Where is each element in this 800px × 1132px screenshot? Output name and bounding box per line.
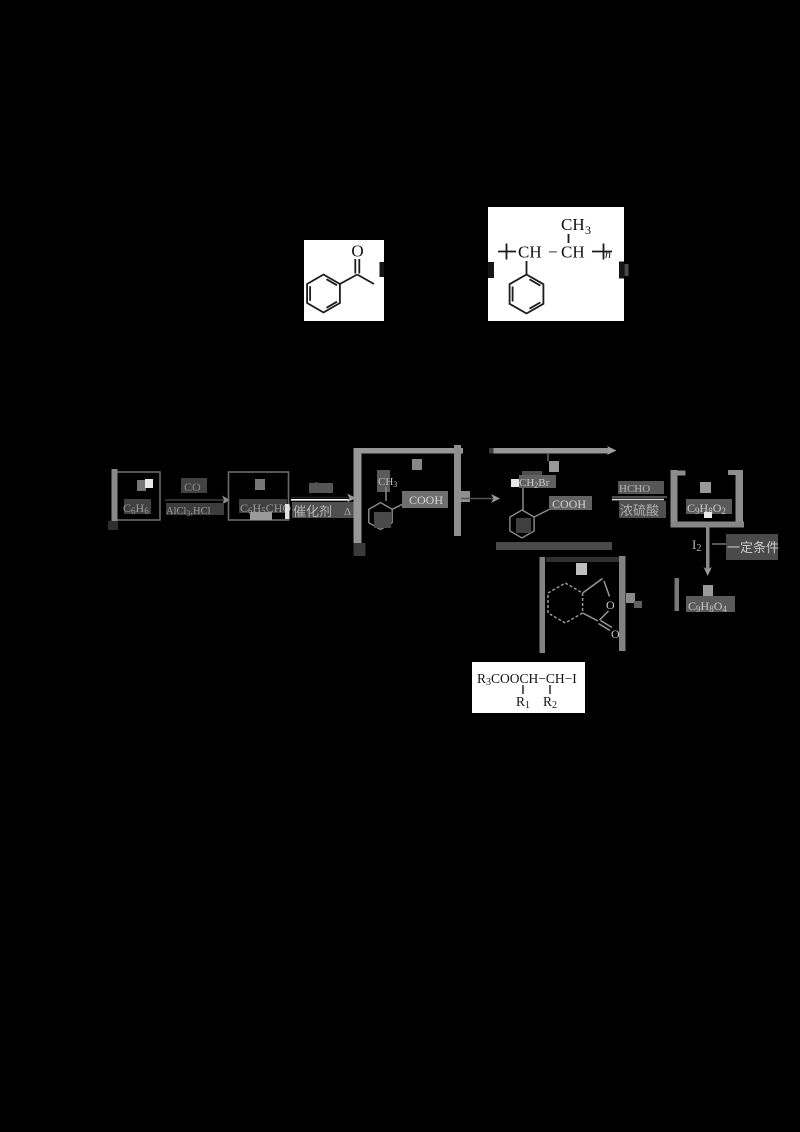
bracket ding (D): top bar bbox=[494, 448, 611, 454]
bracket bing: left bar bbox=[354, 448, 362, 543]
svg-text:COOH: COOH bbox=[552, 497, 586, 511]
svg-text:O: O bbox=[611, 627, 620, 641]
arrow 3 bright start blob bbox=[461, 491, 470, 502]
left backbone bracket bbox=[498, 244, 516, 260]
light block below yi formula bbox=[250, 512, 272, 520]
bing label blob bbox=[412, 459, 422, 470]
svg-text:CH: CH bbox=[518, 243, 542, 262]
svg-text:O: O bbox=[606, 598, 615, 612]
bond CH-R1 bbox=[522, 685, 524, 694]
ding bottom bar bbox=[496, 542, 612, 550]
svg-text:一定条件: 一定条件 bbox=[727, 540, 779, 555]
lactone box: right bar bbox=[619, 556, 626, 651]
bracket bing (C): top bar bbox=[354, 448, 464, 454]
white panel: R3COO box bbox=[472, 662, 585, 713]
wu label blob bbox=[700, 482, 711, 493]
svg-text:CO: CO bbox=[184, 480, 201, 494]
bright left edge of box jia bbox=[112, 469, 118, 522]
AlCl3 label backing bbox=[166, 503, 224, 515]
svg-text:3: 3 bbox=[585, 223, 591, 237]
condition tie line bbox=[712, 543, 727, 545]
bracket bing right bar bbox=[454, 445, 461, 536]
subscript glyph right of lactone box bbox=[626, 593, 635, 603]
product F bracket bar bbox=[675, 578, 680, 611]
clipped black glyph at right edge of box 1 bbox=[380, 262, 385, 277]
arrow 2 white underline bbox=[291, 499, 349, 501]
ding CH2Br backing bbox=[519, 475, 556, 488]
arrow 3 shaft bbox=[461, 498, 494, 500]
arrow 2 catalyst label blocks bbox=[292, 502, 356, 518]
lactone box: faint top smudge bbox=[546, 557, 619, 562]
R3COOCH-CH-I formula bbox=[477, 671, 577, 688]
ding ring inner gray fill bbox=[516, 518, 531, 533]
dark nub in top-bar gap bbox=[489, 448, 498, 454]
bing CH3 text bbox=[377, 470, 397, 492]
phenyl ring of polymer bbox=[510, 275, 544, 314]
product formula backing bbox=[686, 596, 735, 612]
lactone 5-ring bond ring-CH2 bbox=[583, 579, 603, 594]
arrow 4 lower label backing bbox=[619, 501, 666, 518]
bond backbone to phenyl bbox=[526, 261, 528, 275]
svg-text:O: O bbox=[351, 242, 363, 261]
C6H6 backing bbox=[124, 499, 151, 514]
ding top-bar end nub bbox=[607, 446, 617, 455]
acetyl group C(=O)CH3 bbox=[340, 259, 374, 284]
lactone C=O double bond bbox=[599, 621, 613, 631]
svg-text:浓硫酸: 浓硫酸 bbox=[620, 503, 659, 518]
svg-text:C9H8O4: C9H8O4 bbox=[688, 599, 727, 614]
CH3 side group text bbox=[561, 215, 591, 237]
faint nub below jia box corner bbox=[108, 521, 118, 530]
svg-text:CH: CH bbox=[561, 215, 585, 234]
svg-text:n: n bbox=[605, 247, 611, 261]
arrow 4 HCHO label backing bbox=[618, 481, 664, 494]
svg-text:HCHO: HCHO bbox=[619, 483, 650, 495]
arrow 1 head bbox=[222, 496, 230, 505]
ding COOH backing bbox=[549, 496, 592, 510]
arrow 2 head bbox=[347, 494, 356, 503]
yi label blob bbox=[255, 479, 265, 490]
ding label tick bbox=[547, 453, 549, 461]
white artifact block in box jia bbox=[145, 479, 153, 488]
lactone 5-ring bond CH2-O bbox=[604, 581, 610, 597]
box jia (A) outline bbox=[113, 472, 160, 520]
arrow 4 white underline bbox=[612, 499, 664, 501]
svg-text:COOH: COOH bbox=[409, 493, 443, 507]
bing gray block lower bbox=[374, 512, 391, 528]
white artifact block under wu formula bbox=[704, 512, 712, 518]
C6H5CHO backing bbox=[239, 499, 287, 513]
svg-text:CH: CH bbox=[561, 243, 585, 262]
ding benzene ring bbox=[510, 510, 534, 538]
arrow 3 head bbox=[491, 494, 500, 503]
CO label backing bbox=[181, 478, 207, 493]
svg-text:−: − bbox=[548, 243, 558, 262]
clipped black glyph at left edge of box 2 bbox=[488, 262, 494, 278]
box wu: top-right tick bbox=[728, 470, 743, 475]
backbone text CH-CH bbox=[518, 243, 585, 262]
white artifact left of arrow 2 bbox=[285, 504, 290, 519]
faint glyph just right of box 2 bbox=[625, 264, 629, 276]
box wu: bottom bar bbox=[671, 522, 745, 528]
box wu: top-left tick bbox=[671, 471, 686, 476]
ding label blob bbox=[549, 461, 559, 472]
svg-text:催化剂: 催化剂 bbox=[293, 504, 332, 519]
right backbone bracket with n bbox=[592, 244, 612, 260]
white panel: polymer image box bbox=[488, 207, 624, 321]
svg-text:Δ: Δ bbox=[344, 506, 351, 518]
clipped black glyph at right edge of box 2 bbox=[619, 262, 624, 279]
small mark right-lower of lactone box bbox=[634, 601, 642, 608]
wu formula backing bbox=[686, 499, 732, 514]
product F label blob bbox=[703, 585, 713, 596]
lactone label blob (M) bbox=[576, 563, 587, 575]
jia label blob bbox=[137, 480, 146, 491]
lactone benzene ring bbox=[548, 583, 583, 623]
bond CH-R2 bbox=[549, 685, 551, 694]
box wu (E): left bar bbox=[671, 470, 678, 527]
bond CH3 to backbone bbox=[568, 234, 570, 243]
condition label backing bbox=[726, 534, 778, 560]
white panel: acetophenone image box bbox=[304, 240, 384, 321]
benzene ring of acetophenone bbox=[307, 275, 340, 313]
ding bond ring-COOH bbox=[534, 508, 552, 517]
bracket bing: bottom-left dark nub bbox=[354, 543, 366, 556]
artifact block above CH2Br bbox=[522, 471, 542, 477]
vertical arrow from wu: shaft bbox=[706, 527, 710, 570]
box wu: right bar bbox=[736, 470, 744, 527]
lactone box: left bar bbox=[540, 557, 546, 653]
gray block under O2 bbox=[309, 483, 333, 493]
lactone bond ring-C bbox=[583, 613, 598, 621]
bing bond ring-COOH bbox=[392, 501, 410, 510]
svg-text:R3COOCH−CH−I: R3COOCH−CH−I bbox=[477, 671, 577, 688]
arrow 2 shaft dark bbox=[291, 497, 352, 499]
box yi (B) outline bbox=[229, 472, 289, 520]
lactone bond O-C bbox=[600, 611, 609, 620]
vertical arrow head bbox=[704, 567, 712, 576]
ding bond CH2Br-ring bbox=[522, 488, 524, 510]
bing bond CH3-ring bbox=[385, 487, 387, 501]
bing COOH backing block bbox=[402, 491, 448, 508]
arrow 4 shaft bbox=[612, 496, 667, 498]
arrow 1 shaft bbox=[165, 499, 228, 501]
bing benzene ring bbox=[369, 503, 392, 530]
white artifact block left of CH2Br bbox=[511, 479, 519, 487]
